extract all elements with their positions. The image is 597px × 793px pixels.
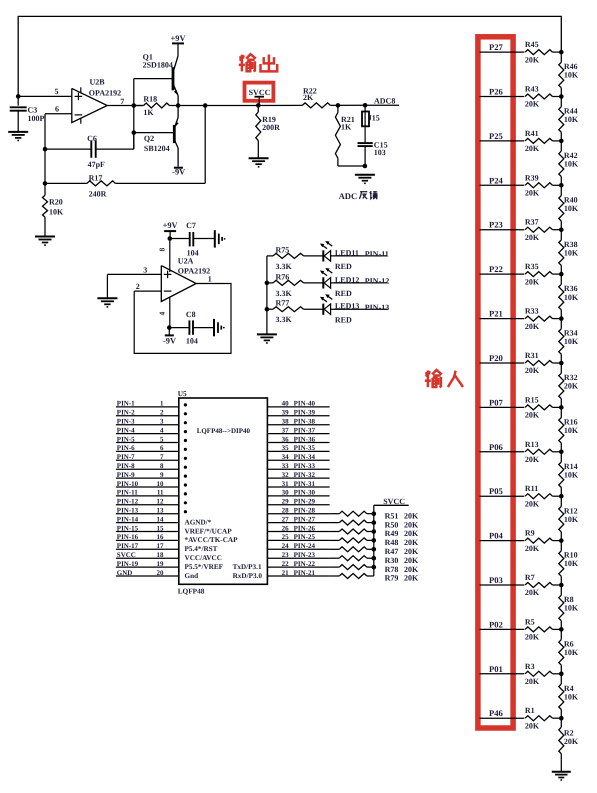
svg-text:4: 4	[158, 311, 167, 315]
wire ADC8 stub	[365, 97, 399, 106]
svg-text:R41: R41	[525, 129, 539, 138]
ic U5 internal dot row 11	[184, 492, 187, 495]
ic U5 internal label AGND/*	[185, 518, 212, 526]
svg-text:28: 28	[282, 507, 290, 515]
svg-text:16: 16	[157, 533, 165, 541]
node LED rail junction	[265, 281, 270, 286]
svg-text:R78: R78	[385, 565, 399, 574]
resistor R5 20K	[525, 617, 561, 641]
wire Q1 base	[134, 78, 173, 80]
ic U5 left pin 16 PIN-16	[116, 533, 179, 541]
ic U5 internal label P5.5*/VREF	[185, 563, 224, 571]
ic U5 left pin 19 PIN-19	[116, 560, 179, 568]
svg-text:PIN-36: PIN-36	[294, 435, 316, 443]
ic U5 right pin 38 PIN-38	[267, 418, 329, 426]
wire inverting feedback vertical	[44, 114, 46, 196]
svg-text:3.3K: 3.3K	[276, 262, 293, 271]
node ladder junction	[559, 583, 564, 588]
svg-text:R15: R15	[525, 395, 539, 404]
svg-text:20K: 20K	[525, 411, 540, 420]
port P20	[480, 353, 525, 363]
svg-text:3: 3	[143, 266, 147, 275]
ic U5 right pin 26 PIN-26	[267, 524, 329, 532]
node ladder junction	[559, 405, 564, 410]
resistor R13 20K	[525, 440, 561, 464]
svg-text:21: 21	[282, 569, 290, 577]
svg-text:R43: R43	[525, 85, 539, 94]
ic U5 internal label RxD/P3.0	[233, 572, 263, 580]
jumper J15	[362, 105, 380, 143]
svg-text:PIN-25: PIN-25	[294, 533, 316, 541]
svg-text:10K: 10K	[564, 692, 579, 701]
port P05	[480, 486, 525, 496]
ground	[249, 158, 269, 167]
svg-text:SVCC: SVCC	[117, 551, 136, 559]
svg-text:LQFP48-->DIP40: LQFP48-->DIP40	[197, 427, 251, 435]
svg-text:PIN-13: PIN-13	[117, 507, 139, 515]
node C6 junction	[43, 147, 48, 152]
svg-text:20K: 20K	[525, 189, 540, 198]
svg-text:P05: P05	[489, 486, 503, 496]
node ladder junction	[559, 716, 564, 721]
ic U5 internal dot row 1	[184, 403, 187, 406]
svg-text:PIN-23: PIN-23	[294, 551, 316, 559]
ground sideways	[214, 319, 224, 336]
node R21 junction	[336, 103, 341, 108]
wire op-amp output	[107, 105, 142, 107]
svg-text:P25: P25	[489, 131, 503, 141]
svg-text:20K: 20K	[525, 633, 540, 642]
svg-text:20K: 20K	[404, 529, 419, 538]
svg-text:2K: 2K	[303, 93, 314, 102]
node pullup rail junction	[372, 547, 377, 552]
resistor R7 20K	[525, 573, 561, 597]
wire R22 to ADC node	[330, 104, 365, 106]
node emitter junction	[176, 103, 181, 108]
port P21	[480, 309, 525, 319]
svg-text:+9V: +9V	[163, 221, 178, 230]
resistor R22 2K	[302, 87, 330, 108]
svg-text:PIN-30: PIN-30	[294, 489, 316, 497]
net SVCC pullup rail	[374, 497, 409, 576]
resistor R40 10K	[559, 185, 579, 229]
svg-text:R75: R75	[276, 245, 290, 254]
svg-text:10K: 10K	[564, 648, 579, 657]
ic U5 internal dot row 12	[184, 501, 187, 504]
svg-text:PIN-6: PIN-6	[117, 444, 135, 452]
power -9V	[172, 168, 185, 177]
resistor R45 20K	[525, 40, 561, 64]
svg-text:33: 33	[282, 462, 290, 470]
ic U5 right pin 30 PIN-30	[267, 489, 329, 497]
ic U5 internal dot row 8	[184, 466, 187, 469]
transistor Q2 SB1204	[144, 106, 179, 167]
svg-text:1K: 1K	[341, 122, 352, 131]
ic U5 left pin 1 PIN-1	[116, 400, 179, 408]
svg-text:31: 31	[282, 480, 290, 488]
ic U5 right pin 22 PIN-22	[267, 560, 329, 568]
node ladder junction	[559, 316, 564, 321]
svg-text:R51: R51	[385, 511, 399, 520]
ic U5 left pin 10 PIN-10	[116, 480, 179, 488]
op-amp U2B OPA2192	[72, 78, 121, 124]
svg-text:103: 103	[374, 148, 386, 157]
port P23	[480, 220, 525, 230]
ground	[257, 334, 277, 343]
node pullup rail junction	[372, 511, 377, 516]
ic U5 internal dot row 4	[184, 430, 187, 433]
svg-text:*AVCC/TK-CAP: *AVCC/TK-CAP	[185, 536, 239, 544]
power -9V	[163, 328, 176, 346]
svg-text:47pF: 47pF	[88, 160, 105, 169]
resistor R75 3.3K	[267, 245, 304, 271]
svg-text:10K: 10K	[564, 160, 579, 169]
resistor R11 20K	[525, 484, 561, 508]
node ladder junction	[559, 672, 564, 677]
svg-text:SVCC: SVCC	[383, 497, 405, 506]
svg-text:10: 10	[157, 480, 165, 488]
ic U5 left pin 5 PIN-5	[116, 435, 179, 443]
svg-text:R20: R20	[49, 198, 63, 207]
resistor R49 20K pullup	[330, 529, 419, 538]
svg-text:PIN-38: PIN-38	[294, 418, 316, 426]
wire base rail vertical	[133, 79, 135, 150]
svg-text:22: 22	[282, 560, 290, 568]
port P03	[480, 575, 525, 585]
svg-text:PIN-17: PIN-17	[117, 542, 139, 550]
svg-text:RED: RED	[335, 289, 352, 298]
svg-text:10K: 10K	[49, 207, 64, 216]
capacitor C15 103	[358, 141, 388, 167]
svg-text:2: 2	[136, 282, 140, 291]
node ladder junction	[559, 450, 564, 455]
svg-text:R9: R9	[525, 529, 535, 538]
resistor R18 1K	[134, 95, 178, 118]
svg-text:2SD1804: 2SD1804	[143, 61, 173, 70]
svg-text:P01: P01	[489, 664, 503, 674]
port P04	[480, 531, 525, 541]
resistor R37 20K	[525, 218, 561, 242]
resistor R31 20K	[525, 351, 561, 375]
svg-text:34: 34	[282, 453, 290, 461]
svg-text:SB1204: SB1204	[144, 144, 170, 153]
svg-text:25: 25	[282, 533, 290, 541]
svg-text:30: 30	[282, 489, 290, 497]
LED LED11 RED	[304, 241, 388, 271]
svg-text:24: 24	[282, 542, 290, 550]
svg-text:SVCC: SVCC	[249, 88, 271, 97]
svg-text:LED13: LED13	[335, 302, 359, 311]
svg-text:1: 1	[208, 275, 212, 284]
svg-text:PIN-11: PIN-11	[365, 250, 389, 259]
pin 4 stub	[158, 297, 170, 327]
node ladder junction	[559, 227, 564, 232]
svg-text:P46: P46	[489, 708, 504, 718]
svg-text:R45: R45	[525, 40, 539, 49]
svg-text:20K: 20K	[525, 588, 540, 597]
svg-text:GND: GND	[117, 569, 133, 577]
ic U5 left pin 14 PIN-14	[116, 515, 179, 523]
ic U5 left pin 18 SVCC	[116, 551, 179, 559]
svg-text:20K: 20K	[525, 366, 540, 375]
svg-text:PIN-7: PIN-7	[117, 453, 135, 461]
svg-text:20K: 20K	[404, 547, 419, 556]
ground	[355, 175, 375, 184]
ic U5 internal label *AVCC/TK-CAP	[185, 536, 239, 544]
ic U5 right pin 37 PIN-37	[267, 426, 329, 434]
svg-text:PIN-9: PIN-9	[117, 471, 135, 479]
svg-text:LED11: LED11	[335, 248, 359, 257]
svg-text:TxD/P3.1: TxD/P3.1	[233, 563, 262, 571]
svg-text:20K: 20K	[525, 544, 540, 553]
svg-text:LQFP48: LQFP48	[178, 587, 205, 596]
ic U5 left pin 15 PIN-15	[116, 524, 179, 532]
svg-text:R18: R18	[143, 95, 157, 104]
ic U5 left pin 6 PIN-6	[116, 444, 179, 452]
node C8 junction	[167, 325, 172, 330]
svg-text:C7: C7	[186, 221, 196, 230]
svg-text:R7: R7	[525, 573, 535, 582]
svg-text:PIN-12: PIN-12	[365, 277, 389, 286]
svg-text:R50: R50	[385, 520, 399, 529]
svg-text:Q2: Q2	[144, 134, 154, 143]
svg-text:PIN-35: PIN-35	[294, 444, 316, 452]
resistor R19 200R	[256, 105, 280, 158]
ic U5 internal dot row 13	[184, 510, 187, 513]
svg-text:-9V: -9V	[163, 336, 176, 345]
wire pin 2	[134, 282, 161, 291]
resistor R3 20K	[525, 662, 561, 686]
ground	[552, 772, 571, 780]
resistor R21 1K	[335, 105, 365, 166]
svg-text:P06: P06	[489, 442, 504, 452]
port P02	[480, 619, 525, 629]
svg-text:-9V: -9V	[172, 168, 185, 177]
ic U5 right pin 33 PIN-33	[267, 462, 329, 470]
ic U5 right pin 36 PIN-36	[267, 435, 329, 443]
resistor R17 240R	[45, 174, 115, 199]
resistor R35 20K	[525, 262, 561, 286]
svg-text:R13: R13	[525, 440, 539, 449]
capacitor C7 104	[170, 221, 215, 258]
ic U5 left pin 17 PIN-17	[116, 542, 179, 550]
svg-text:2: 2	[160, 409, 164, 417]
ground	[35, 237, 55, 246]
resistor R43 20K	[525, 85, 561, 109]
svg-text:6: 6	[160, 444, 164, 452]
wire LED ground rail	[266, 256, 268, 335]
svg-text:10K: 10K	[564, 559, 579, 568]
ic U5 LQFP48 body	[178, 389, 268, 596]
svg-text:3.3K: 3.3K	[276, 315, 293, 324]
svg-text:35: 35	[282, 444, 290, 452]
resistor R9 20K	[525, 529, 561, 553]
ic U5 internal dot row 9	[184, 475, 187, 478]
svg-text:20K: 20K	[525, 55, 540, 64]
svg-text:240R: 240R	[89, 190, 107, 199]
svg-text:ADC8: ADC8	[374, 97, 395, 106]
svg-text:PIN-1: PIN-1	[117, 400, 135, 408]
svg-text:ADC: ADC	[339, 191, 358, 201]
svg-text:P23: P23	[489, 220, 503, 230]
resistor R39 20K	[525, 173, 561, 197]
node C7 junction	[168, 236, 173, 241]
svg-text:20K: 20K	[404, 520, 419, 529]
svg-text:18: 18	[157, 551, 165, 559]
svg-text:P02: P02	[489, 619, 503, 629]
wire pin 3	[107, 266, 161, 299]
label input Chinese red	[425, 370, 463, 387]
ic U5 right pin 25 PIN-25	[267, 533, 329, 541]
svg-text:P27: P27	[489, 42, 504, 52]
ic U5 internal label VCC/AVCC	[185, 554, 222, 562]
svg-text:P26: P26	[489, 87, 504, 97]
svg-text:R33: R33	[525, 307, 539, 316]
node C3 junction	[16, 94, 21, 99]
svg-text:RxD/P3.0: RxD/P3.0	[233, 572, 263, 580]
svg-text:R11: R11	[525, 484, 538, 493]
svg-text:20K: 20K	[525, 455, 540, 464]
node pullup rail junction	[372, 529, 377, 534]
ic U5 right pin 34 PIN-34	[267, 453, 329, 461]
svg-text:PIN-26: PIN-26	[294, 524, 316, 532]
svg-text:10K: 10K	[564, 426, 579, 435]
resistor R32 20K	[559, 363, 579, 407]
svg-text:27: 27	[282, 515, 290, 523]
svg-text:R5: R5	[525, 617, 535, 626]
transistor Q1 2SD1804	[143, 52, 179, 105]
ic U5 left pin 3 PIN-3	[116, 418, 179, 426]
resistor R76 3.3K	[267, 272, 304, 298]
ic U5 internal label VREF/*/UCAP	[185, 527, 233, 535]
svg-text:R48: R48	[385, 538, 399, 547]
node ladder junction	[559, 272, 564, 277]
svg-text:20K: 20K	[525, 322, 540, 331]
ic U5 internal label Gnd	[185, 572, 199, 580]
svg-text:R39: R39	[525, 173, 539, 182]
op-amp U2A OPA2192	[161, 256, 210, 301]
label PIN-11	[365, 250, 389, 259]
svg-text:OPA2192: OPA2192	[178, 267, 210, 276]
node R18 left junction	[132, 103, 137, 108]
svg-text:14: 14	[157, 515, 165, 523]
svg-text:P03: P03	[489, 575, 503, 585]
resistor R36 10K	[559, 274, 579, 319]
svg-text:U2B: U2B	[90, 78, 106, 87]
svg-text:R76: R76	[276, 272, 290, 281]
svg-text:100P: 100P	[28, 114, 45, 123]
resistor R48 20K pullup	[330, 538, 419, 547]
svg-text:P5.5*/VREF: P5.5*/VREF	[185, 563, 224, 571]
svg-text:10K: 10K	[564, 293, 579, 302]
svg-text:P22: P22	[489, 264, 503, 274]
svg-text:R79: R79	[385, 574, 399, 583]
svg-text:PIN-22: PIN-22	[294, 560, 316, 568]
power +9V	[170, 34, 185, 56]
resistor R20 10K	[43, 195, 65, 235]
svg-text:Gnd: Gnd	[185, 572, 199, 580]
svg-text:PIN-5: PIN-5	[117, 435, 135, 443]
svg-text:P07: P07	[489, 397, 504, 407]
resistor R15 20K	[525, 395, 561, 419]
svg-text:20K: 20K	[404, 511, 419, 520]
resistor R44 10K	[559, 97, 579, 141]
resistor R42 10K	[559, 141, 579, 185]
svg-text:23: 23	[282, 551, 290, 559]
svg-text:37: 37	[282, 426, 290, 434]
svg-text:8: 8	[158, 247, 167, 251]
svg-text:R1: R1	[525, 706, 535, 715]
svg-text:10K: 10K	[564, 204, 579, 213]
svg-text:U2A: U2A	[178, 256, 194, 265]
resistor R14 10K	[559, 452, 579, 496]
svg-text:20K: 20K	[564, 737, 579, 746]
svg-text:7: 7	[120, 97, 124, 106]
svg-text:PIN-15: PIN-15	[117, 524, 139, 532]
ic U5 internal dot row 7	[184, 457, 187, 460]
svg-text:PIN-14: PIN-14	[117, 515, 139, 523]
port P25	[480, 131, 525, 141]
resistor R16 10K	[559, 407, 579, 451]
label PIN-12	[365, 277, 389, 286]
svg-text:11: 11	[157, 489, 164, 497]
ic U5 internal dot row 6	[184, 448, 187, 451]
resistor R30 20K pullup	[330, 556, 419, 565]
svg-text:PIN-32: PIN-32	[294, 471, 316, 479]
ic U5 internal label P5.4*/RST	[185, 545, 218, 553]
wire op-amp pin 6	[45, 104, 72, 113]
port P27	[480, 42, 525, 52]
resistor R46 10K	[559, 52, 579, 96]
port P46	[480, 708, 525, 718]
svg-text:4: 4	[160, 426, 164, 434]
svg-text:20: 20	[157, 569, 165, 577]
svg-text:PIN-16: PIN-16	[117, 533, 139, 541]
resistor R8 10K	[559, 585, 579, 629]
svg-text:15: 15	[157, 524, 165, 532]
resistor R33 20K	[525, 307, 561, 331]
svg-text:10K: 10K	[564, 515, 579, 524]
ic U5 internal label TxD/P3.1	[233, 563, 262, 571]
svg-text:+9V: +9V	[170, 34, 185, 43]
svg-text:P20: P20	[489, 353, 503, 363]
node output junction	[203, 103, 208, 108]
svg-text:20K: 20K	[525, 233, 540, 242]
ic U5 internal dot row 2	[184, 412, 187, 415]
svg-text:OPA2192: OPA2192	[89, 88, 121, 97]
svg-text:R3: R3	[525, 662, 535, 671]
svg-text:26: 26	[282, 524, 290, 532]
svg-text:39: 39	[282, 409, 290, 417]
svg-text:VCC/AVCC: VCC/AVCC	[185, 554, 222, 562]
svg-text:10K: 10K	[564, 71, 579, 80]
node R17 junction	[43, 181, 48, 186]
svg-text:PIN-39: PIN-39	[294, 409, 316, 417]
resistor R79 20K pullup	[330, 574, 419, 583]
wire op-amp pin 5	[18, 87, 72, 96]
resistor R6 10K	[559, 629, 579, 673]
svg-text:10K: 10K	[564, 604, 579, 613]
svg-text:104: 104	[186, 336, 198, 345]
svg-text:R47: R47	[385, 547, 399, 556]
svg-text:PIN-40: PIN-40	[294, 400, 316, 408]
node SVCC junction	[256, 103, 261, 108]
node pullup rail junction	[372, 538, 377, 543]
svg-text:PIN-29: PIN-29	[294, 498, 316, 506]
ic U5 right pin 39 PIN-39	[267, 409, 329, 417]
node ladder junction	[559, 94, 564, 99]
svg-text:7: 7	[160, 453, 164, 461]
